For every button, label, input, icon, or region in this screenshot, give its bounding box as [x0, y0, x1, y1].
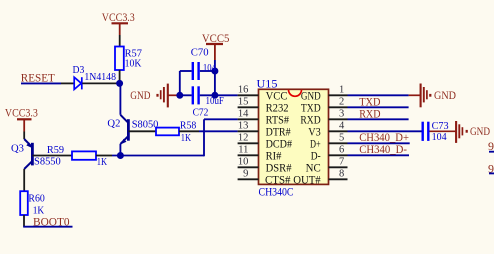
pin 1 [301, 85, 348, 103]
svg-text:R232: R232 [266, 102, 289, 114]
svg-text:CTS#: CTS# [265, 174, 291, 186]
svg-text:R59: R59 [47, 144, 65, 156]
svg-text:16: 16 [238, 85, 249, 96]
svg-text:TXD: TXD [301, 102, 321, 114]
capacitor C73 [423, 120, 449, 143]
resistor R57 [115, 47, 142, 71]
pin 4 [308, 121, 347, 139]
svg-text:9: 9 [243, 169, 248, 180]
svg-text:R60: R60 [28, 193, 45, 205]
svg-text:13: 13 [238, 121, 249, 132]
svg-text:D+: D+ [310, 138, 321, 150]
pin 7 [306, 157, 348, 175]
junction gnd corner [176, 92, 183, 99]
svg-text:BOOT0: BOOT0 [33, 214, 70, 228]
svg-text:D3: D3 [73, 64, 85, 76]
svg-text:Q2: Q2 [107, 118, 120, 130]
wire vertical x204 [203, 119, 205, 156]
svg-text:D-: D- [311, 150, 321, 162]
wire Q3 collector down [23, 169, 25, 191]
svg-text:RESET: RESET [21, 70, 56, 84]
wire pin5 CH340 D+ [348, 142, 410, 144]
wire to pin14 [204, 118, 238, 120]
pin 11 [238, 145, 282, 163]
svg-text:Q3: Q3 [11, 143, 24, 155]
svg-text:7: 7 [339, 157, 344, 168]
svg-text:S8050: S8050 [132, 119, 159, 131]
svg-text:10K: 10K [125, 58, 142, 70]
wire R60 to BOOT0 [23, 215, 72, 227]
wire RESET [21, 82, 61, 84]
svg-text:NC: NC [306, 162, 321, 174]
pin 16 [238, 85, 288, 103]
resistor R60 [20, 191, 45, 217]
svg-text:104: 104 [432, 131, 447, 143]
net label fragment right edge 2 [488, 162, 494, 176]
svg-text:4: 4 [339, 121, 345, 132]
svg-text:14: 14 [238, 109, 249, 120]
svg-text:OUT#: OUT# [293, 174, 321, 186]
pin 5 [310, 133, 348, 151]
svg-text:12: 12 [238, 133, 249, 144]
wire VCC5 down [214, 60, 216, 95]
svg-text:C72: C72 [193, 107, 209, 119]
wire Q2 base to R58 [128, 130, 156, 132]
pin 12 [238, 133, 293, 151]
svg-text:R58: R58 [180, 119, 197, 131]
svg-text:8: 8 [339, 169, 344, 180]
junction emitter/R59 [117, 152, 124, 159]
svg-text:15: 15 [238, 97, 249, 108]
power VCC3.3 top [102, 10, 135, 35]
svg-text:10uF: 10uF [206, 95, 224, 107]
transistor Q3 S8550 [11, 139, 61, 169]
svg-text:VCC: VCC [266, 90, 288, 102]
wire pin4 to C73 [348, 130, 422, 132]
svg-text:V3: V3 [308, 126, 321, 138]
svg-text:1K: 1K [181, 132, 191, 144]
wire R59 to junction [96, 155, 112, 157]
wire vcc3.3 to R57 [119, 35, 121, 47]
wire pin2 TXD [348, 106, 409, 108]
wire Q2 emitter down [119, 144, 121, 156]
pin 13 [238, 121, 291, 139]
capacitor C70 [191, 47, 216, 80]
svg-text:CH340C: CH340C [259, 187, 294, 199]
power VCC5 [202, 31, 230, 60]
svg-text:C70: C70 [191, 47, 209, 59]
svg-text:3: 3 [339, 109, 344, 120]
svg-text:1: 1 [339, 85, 344, 96]
pin 10 [238, 157, 292, 175]
svg-text:DTR#: DTR# [266, 126, 291, 138]
wire pin16 horizontal [180, 94, 238, 96]
svg-text:GND: GND [470, 124, 490, 138]
wire R57 to junction [119, 70, 121, 83]
svg-text:GND: GND [301, 90, 321, 102]
svg-text:DCD#: DCD# [266, 138, 293, 150]
diode D3 1N4148 [61, 64, 120, 89]
svg-text:GND: GND [130, 88, 150, 102]
wire pin1 to GND [348, 94, 409, 96]
svg-text:RXD: RXD [359, 107, 381, 121]
wire junction to Q2 collector [119, 83, 121, 114]
svg-text:VCC3.3: VCC3.3 [102, 10, 135, 24]
svg-text:U15: U15 [257, 76, 278, 90]
wire pin6 CH340 D- [348, 154, 410, 156]
wire vcc to Q3 emitter [23, 132, 25, 140]
pin 15 [238, 97, 289, 115]
svg-text:6: 6 [339, 145, 344, 156]
op-amp U15 chip body CH340C [257, 76, 329, 198]
resistor R58 [156, 119, 197, 144]
svg-text:11: 11 [238, 145, 248, 156]
junction VCC5/pin16 wire [211, 92, 218, 99]
net label fragment right edge 1 [488, 139, 494, 153]
power VCC3.3 bottom left [5, 105, 38, 131]
transistor Q2 S8050 [107, 115, 158, 145]
svg-text:RXD: RXD [300, 114, 320, 126]
wire pin3 RXD [348, 118, 409, 120]
wire emitter net to vertical [112, 155, 204, 157]
svg-text:5: 5 [339, 133, 344, 144]
svg-text:10: 10 [238, 157, 249, 168]
svg-text:VCC5: VCC5 [202, 31, 230, 45]
ground GND right of pin1 [409, 84, 457, 108]
svg-text:2: 2 [339, 97, 344, 108]
svg-text:CH340_D-: CH340_D- [359, 142, 407, 156]
pin 9 [238, 169, 291, 187]
svg-text:RTS#: RTS# [266, 114, 290, 126]
svg-text:S8550: S8550 [34, 155, 61, 167]
svg-text:VCC3.3: VCC3.3 [5, 105, 38, 119]
pin 2 [301, 97, 348, 115]
svg-text:GND: GND [434, 88, 456, 102]
svg-text:1N4148: 1N4148 [84, 71, 116, 83]
pin 6 [311, 145, 348, 163]
junction diode/R57 [116, 80, 123, 87]
svg-text:DSR#: DSR# [266, 162, 292, 174]
wire Q3 base to R59 [32, 155, 72, 157]
pin 14 [238, 109, 290, 127]
resistor R59 [47, 144, 107, 168]
svg-text:RI#: RI# [266, 150, 282, 162]
svg-text:104: 104 [203, 62, 216, 74]
pin 8 [293, 169, 347, 187]
svg-text:1K: 1K [97, 156, 107, 168]
ground GND right of C73 [429, 121, 490, 143]
pin 3 [300, 109, 347, 127]
capacitor C72 [193, 86, 224, 118]
ground GND left [130, 84, 180, 108]
wire R58 to pin13 [179, 130, 238, 132]
junction VCC5/top wire [211, 68, 218, 75]
wire top horizontal [180, 71, 215, 95]
